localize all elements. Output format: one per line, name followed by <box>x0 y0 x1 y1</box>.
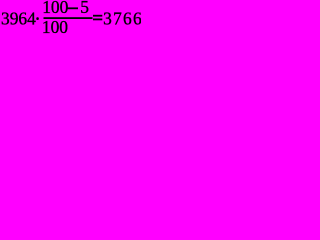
svg-text:100: 100 <box>42 0 68 17</box>
svg-text:5: 5 <box>80 0 89 17</box>
svg-text:3766: 3766 <box>103 9 141 29</box>
svg-text:100: 100 <box>42 17 68 37</box>
svg-text:3964: 3964 <box>1 9 36 29</box>
